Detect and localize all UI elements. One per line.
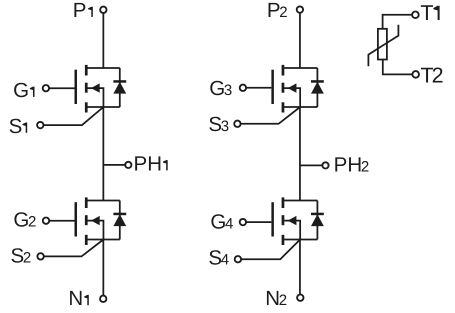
wire Q4 source to N2 xyxy=(299,240,301,295)
channel bars Q1 xyxy=(85,65,88,76)
svg-text:G3: G3 xyxy=(209,77,232,100)
terminal S2 xyxy=(10,244,43,267)
svg-text:T2: T2 xyxy=(420,63,443,87)
source stub Q4 xyxy=(284,239,317,241)
wire G4 lead xyxy=(246,221,271,223)
node PH1 xyxy=(103,152,167,175)
terminal S4 xyxy=(208,246,241,269)
body arrow Q4 xyxy=(284,221,300,240)
wire S1 lead xyxy=(44,107,104,125)
MOSFET Q4 (low-side, right) xyxy=(271,197,317,245)
channel bars Q4 xyxy=(282,197,285,208)
wire P1 to Q1 drain xyxy=(102,13,104,68)
svg-text:G4: G4 xyxy=(210,211,233,234)
wire P2 to Q3 drain xyxy=(299,13,301,68)
body arrow Q2 xyxy=(87,221,103,240)
body arrow Q3 xyxy=(284,88,300,107)
svg-text:S3: S3 xyxy=(208,113,229,136)
terminal P1 xyxy=(73,0,107,22)
MOSFET Q2 (low-side, left) xyxy=(75,197,120,245)
wire S2 lead xyxy=(44,240,103,257)
terminal G2 xyxy=(13,209,49,232)
gate bar Q1 xyxy=(75,70,78,104)
svg-text:PH2: PH2 xyxy=(334,154,370,177)
gate bar Q2 xyxy=(75,202,78,236)
wire Q2 source to N1 xyxy=(102,240,104,296)
wire Q3 source to Q4 drain xyxy=(299,107,301,201)
source stub Q1 xyxy=(87,106,119,108)
svg-text:S2: S2 xyxy=(10,244,31,267)
svg-text:S4: S4 xyxy=(208,246,229,269)
terminal T1 xyxy=(412,1,440,25)
channel bars Q2 xyxy=(85,197,88,208)
drain stub Q2 xyxy=(87,200,119,202)
body diode D1 xyxy=(113,68,126,107)
terminal T2 xyxy=(412,63,443,87)
gate bar Q4 xyxy=(271,202,274,236)
body diode D4 xyxy=(311,201,324,240)
svg-text:N2: N2 xyxy=(265,287,287,310)
source stub Q2 xyxy=(87,239,119,241)
terminal P2 xyxy=(267,0,303,22)
wire G2 lead xyxy=(49,220,74,222)
wire thermistor to T1 xyxy=(383,15,412,29)
svg-text:P: P xyxy=(73,0,87,22)
wire S3 lead xyxy=(241,107,300,124)
terminal G4 xyxy=(210,211,246,234)
terminal N2 xyxy=(265,287,303,310)
node PH2 xyxy=(300,154,369,177)
svg-text:N: N xyxy=(68,287,83,310)
thermistor RT body xyxy=(378,29,387,60)
gate bar Q3 xyxy=(271,70,274,104)
body diode D3 xyxy=(311,68,324,107)
channel bars Q3 xyxy=(282,65,285,76)
MOSFET Q1 (high-side, left) xyxy=(75,65,120,113)
terminal S1 xyxy=(9,115,44,138)
svg-text:S: S xyxy=(9,115,23,138)
drain stub Q3 xyxy=(284,67,317,69)
terminal G3 xyxy=(209,77,246,100)
svg-text:PH: PH xyxy=(134,152,162,175)
thermistor diagonal stroke xyxy=(368,25,398,67)
svg-text:G: G xyxy=(13,79,29,102)
drain stub Q1 xyxy=(87,67,119,69)
MOSFET Q3 (high-side, right) xyxy=(271,65,317,113)
wire thermistor to T2 xyxy=(383,60,412,75)
wire S4 lead xyxy=(241,240,300,260)
wire G1 lead xyxy=(49,87,74,89)
body diode D2 xyxy=(113,201,126,240)
svg-text:G2: G2 xyxy=(13,209,36,232)
body arrow Q1 xyxy=(87,88,103,107)
source stub Q3 xyxy=(284,106,317,108)
svg-text:P2: P2 xyxy=(267,0,288,22)
wire G3 lead xyxy=(246,87,271,89)
svg-text:T: T xyxy=(420,1,433,25)
drain stub Q4 xyxy=(284,200,317,202)
terminal G1 xyxy=(13,79,49,102)
terminal N1 xyxy=(68,287,106,310)
wire Q1 source to Q2 drain xyxy=(102,107,104,201)
terminal S3 xyxy=(208,113,240,136)
